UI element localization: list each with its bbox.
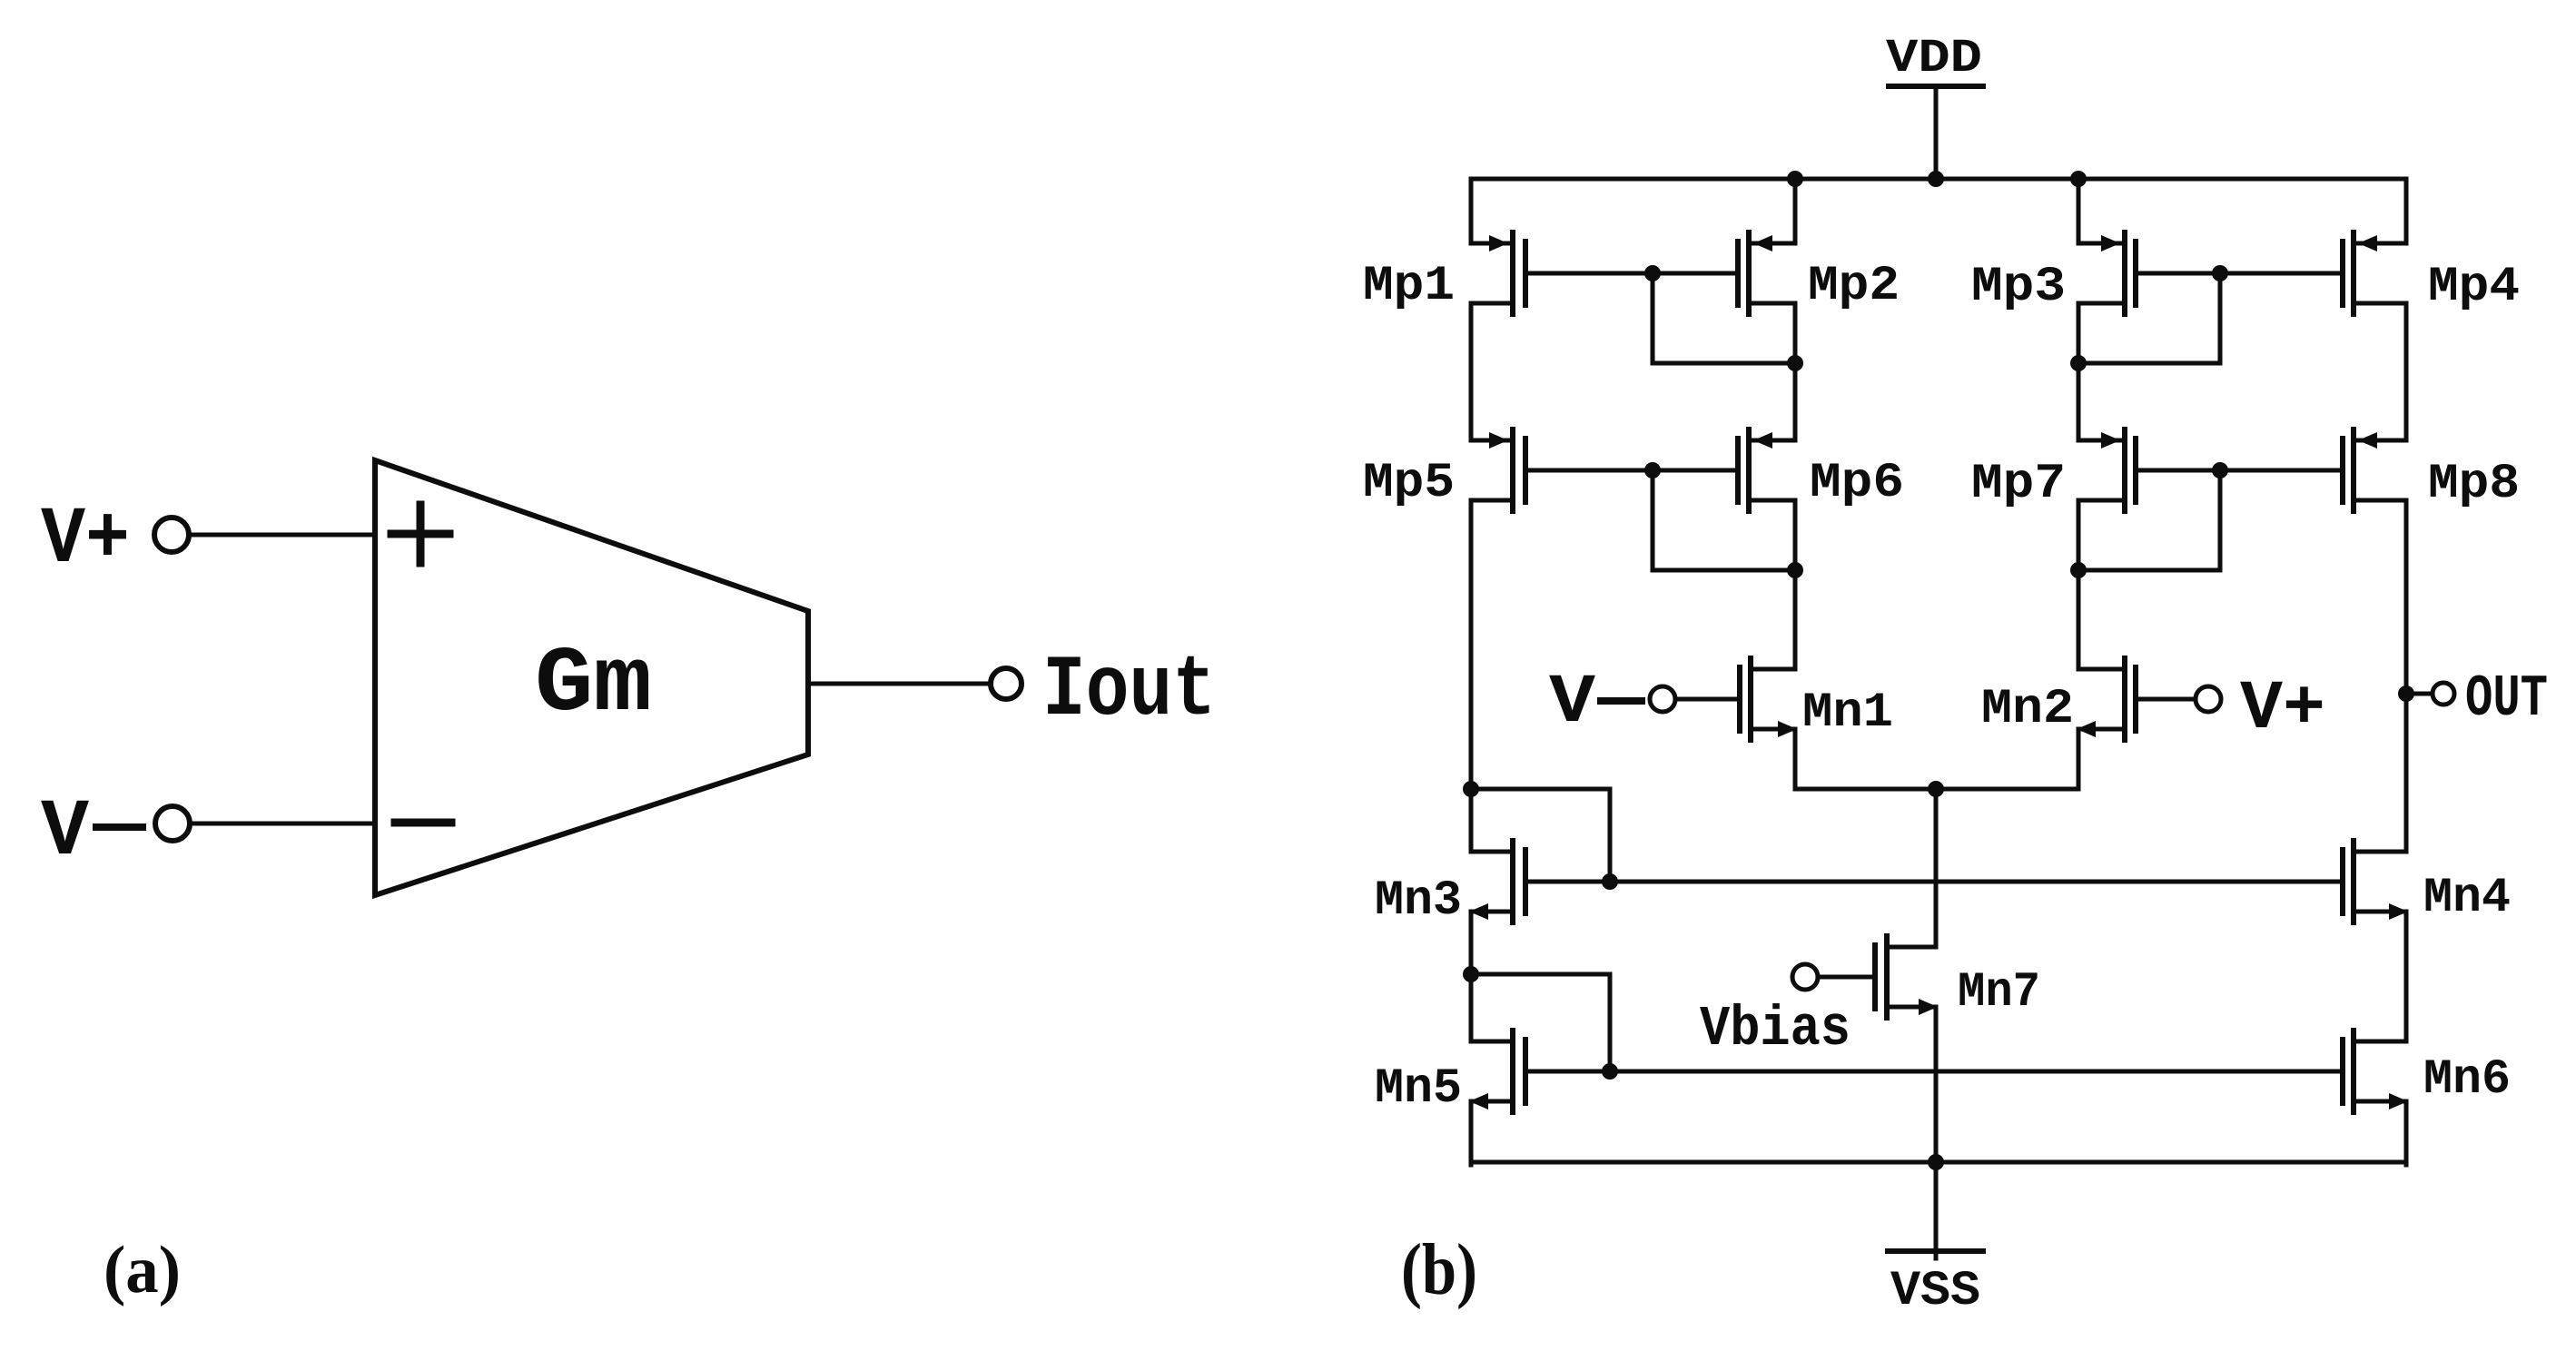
svg-text:Mp6: Mp6 [1810, 456, 1904, 511]
svg-text:OUT: OUT [2465, 666, 2548, 733]
svg-text:V+: V+ [41, 496, 130, 586]
svg-text:VDD: VDD [1886, 32, 1982, 85]
svg-text:Mn4: Mn4 [2423, 871, 2511, 926]
svg-text:Mp4: Mp4 [2428, 260, 2520, 315]
svg-text:V+: V+ [2240, 670, 2325, 748]
svg-text:(a): (a) [104, 1233, 181, 1307]
svg-text:V: V [1549, 664, 1595, 742]
svg-text:Mn3: Mn3 [1375, 873, 1462, 929]
svg-text:Mn2: Mn2 [1981, 682, 2074, 737]
svg-text:Mp5: Mp5 [1363, 456, 1455, 511]
svg-text:V: V [41, 788, 89, 878]
svg-text:Mp1: Mp1 [1363, 259, 1455, 314]
svg-text:Iout: Iout [1042, 642, 1216, 740]
svg-text:Mn6: Mn6 [2423, 1052, 2511, 1108]
svg-text:Gm: Gm [535, 634, 652, 737]
svg-text:VSS: VSS [1890, 1264, 1980, 1319]
svg-text:Mp8: Mp8 [2428, 457, 2520, 512]
svg-text:Mn1: Mn1 [1802, 685, 1893, 741]
svg-text:Mp7: Mp7 [1971, 457, 2066, 512]
svg-text:Vbias: Vbias [1700, 997, 1851, 1061]
svg-text:Mp3: Mp3 [1971, 260, 2066, 315]
svg-text:Mn5: Mn5 [1375, 1061, 1462, 1117]
svg-text:Mp2: Mp2 [1808, 259, 1900, 314]
svg-text:(b): (b) [1401, 1230, 1477, 1310]
svg-text:Mn7: Mn7 [1958, 965, 2040, 1021]
